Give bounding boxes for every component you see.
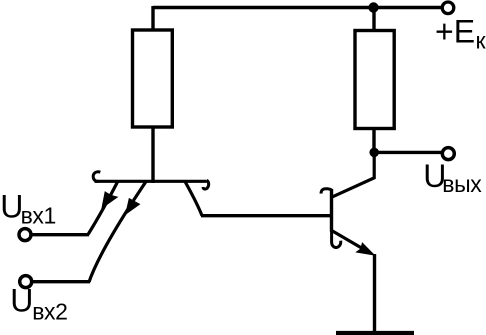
svg-text:U: U <box>10 283 33 319</box>
svg-text:+E: +E <box>435 14 475 50</box>
svg-text:вх2: вх2 <box>32 299 67 325</box>
svg-text:вых: вых <box>442 171 482 197</box>
svg-text:к: к <box>476 27 486 53</box>
svg-text:вх1: вх1 <box>21 203 56 229</box>
